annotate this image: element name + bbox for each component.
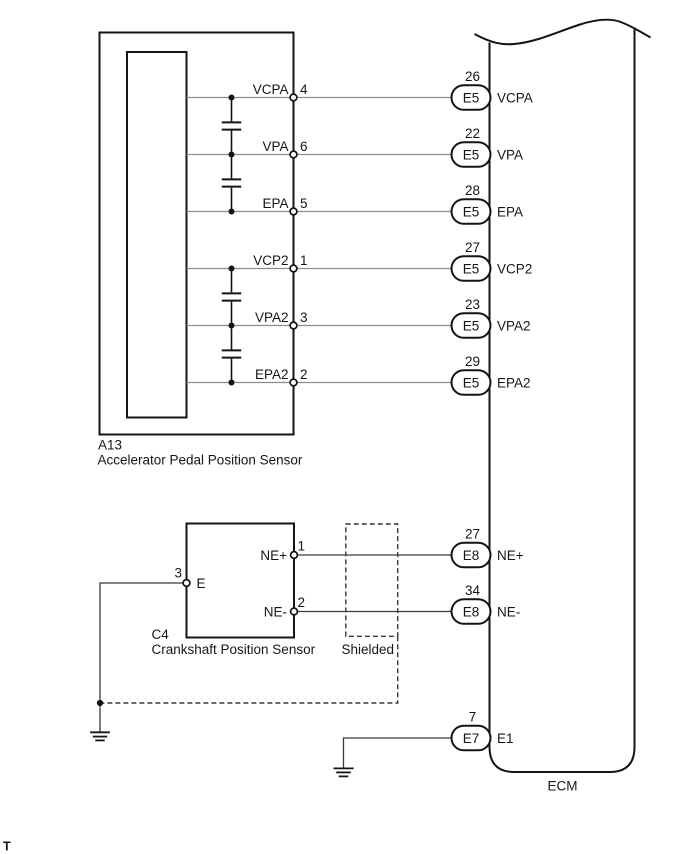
svg-text:VPA2: VPA2 <box>497 318 531 333</box>
capacitor C-c top plate <box>222 292 242 294</box>
svg-text:EPA: EPA <box>497 204 523 219</box>
svg-text:T: T <box>3 840 11 854</box>
svg-text:3: 3 <box>174 566 182 581</box>
capacitor C-a vertical link bottom <box>231 131 233 155</box>
svg-text:VCPA: VCPA <box>497 90 533 105</box>
capacitor C-d bottom plate <box>222 357 242 359</box>
svg-text:Shielded: Shielded <box>342 642 395 657</box>
capacitor C-b top plate <box>222 178 242 180</box>
svg-text:E5: E5 <box>463 147 480 162</box>
junction dot on VCPA wire <box>229 95 235 101</box>
svg-text:E8: E8 <box>463 604 480 619</box>
svg-text:E1: E1 <box>497 731 514 746</box>
svg-text:VPA: VPA <box>262 139 288 154</box>
pin terminal 3 (E) on C4 <box>183 580 190 587</box>
svg-text:7: 7 <box>469 710 477 725</box>
wire E ground run from C4 pin 3 <box>100 583 187 732</box>
capacitor C-d vertical link bottom <box>231 359 233 383</box>
svg-text:EPA: EPA <box>262 196 288 211</box>
svg-text:E5: E5 <box>463 261 480 276</box>
svg-text:27: 27 <box>465 527 480 542</box>
junction dot shield drain to E ground <box>97 700 103 706</box>
junction dot on VCP2 wire <box>229 266 235 272</box>
svg-text:1: 1 <box>300 253 308 268</box>
capacitor C-c bottom plate <box>222 300 242 302</box>
wire VPA from sensor to ECM <box>187 154 453 156</box>
capacitor C-b vertical link bottom <box>231 188 233 212</box>
wire EPA from sensor to ECM <box>187 211 453 213</box>
wire EPA2 from sensor to ECM <box>187 382 453 384</box>
junction dot on VPA wire <box>229 152 235 158</box>
svg-text:VCP2: VCP2 <box>253 253 288 268</box>
svg-text:C4: C4 <box>152 627 170 642</box>
ECM terminal E7-7 (E1) oval <box>452 726 491 751</box>
shield drain wire (dashed) to ground junction <box>100 636 398 703</box>
svg-text:NE+: NE+ <box>497 548 524 563</box>
svg-text:29: 29 <box>465 354 480 369</box>
capacitor C-a top plate <box>222 121 242 123</box>
svg-text:23: 23 <box>465 297 480 312</box>
ECM terminal E5-22 (VPA) oval <box>452 142 491 167</box>
svg-text:VCP2: VCP2 <box>497 261 532 276</box>
pin terminal 2 (EPA2) on A13 <box>290 379 297 386</box>
sensor element bar inside A13 <box>127 52 187 418</box>
ground (ECM E1 ground) <box>334 768 354 776</box>
capacitor C-b bottom plate <box>222 186 242 188</box>
pin terminal 6 (VPA) on A13 <box>290 151 297 158</box>
pin terminal 3 (VPA2) on A13 <box>290 322 297 329</box>
shield box (dashed) around NE wires <box>346 524 398 636</box>
svg-text:34: 34 <box>465 583 481 598</box>
ground (sensor shield/E ground) <box>90 732 110 740</box>
svg-text:1: 1 <box>298 539 306 554</box>
pin terminal 1 (VCP2) on A13 <box>290 265 297 272</box>
wire VCPA from sensor to ECM <box>187 97 453 99</box>
svg-text:28: 28 <box>465 183 480 198</box>
wire NE+ from C4 to ECM <box>294 554 452 556</box>
pin terminal 4 (VCPA) on A13 <box>290 94 297 101</box>
svg-text:22: 22 <box>465 126 480 141</box>
capacitor C-a vertical link top <box>231 98 233 122</box>
ECM terminal E5-29 (EPA2) oval <box>452 370 491 395</box>
svg-text:NE-: NE- <box>497 604 520 619</box>
pin terminal 5 (EPA) on A13 <box>290 208 297 215</box>
capacitor C-d vertical link top <box>231 326 233 350</box>
junction dot on EPA wire <box>229 209 235 215</box>
svg-text:26: 26 <box>465 69 480 84</box>
ECM terminal E5-28 (EPA) oval <box>452 199 491 224</box>
svg-text:VPA: VPA <box>497 147 523 162</box>
svg-text:5: 5 <box>300 196 308 211</box>
svg-text:4: 4 <box>300 82 308 97</box>
svg-text:NE-: NE- <box>264 604 287 619</box>
capacitor C-d top plate <box>222 349 242 351</box>
ECM terminal E5-27 (VCP2) oval <box>452 256 491 281</box>
capacitor C-b vertical link top <box>231 155 233 179</box>
wire VPA2 from sensor to ECM <box>187 325 453 327</box>
svg-text:E: E <box>197 576 206 591</box>
svg-text:E7: E7 <box>463 731 480 746</box>
svg-text:VCPA: VCPA <box>253 82 289 97</box>
wire VCP2 from sensor to ECM <box>187 268 453 270</box>
ECM terminal E8-34 (NE-) oval <box>452 599 491 624</box>
svg-text:EPA2: EPA2 <box>497 375 531 390</box>
svg-text:2: 2 <box>298 595 306 610</box>
pin terminal 2 (NE-) on C4 <box>291 608 298 615</box>
junction dot on EPA2 wire <box>229 380 235 386</box>
pin terminal 1 (NE+) on C4 <box>291 552 298 559</box>
svg-text:E5: E5 <box>463 90 480 105</box>
capacitor C-c vertical link top <box>231 269 233 293</box>
svg-text:NE+: NE+ <box>260 548 287 563</box>
capacitor C-c vertical link bottom <box>231 302 233 326</box>
svg-text:VPA2: VPA2 <box>255 310 289 325</box>
svg-text:2: 2 <box>300 367 308 382</box>
svg-text:E5: E5 <box>463 318 480 333</box>
capacitor C-a bottom plate <box>222 129 242 131</box>
svg-text:Accelerator Pedal Position Sen: Accelerator Pedal Position Sensor <box>98 453 303 468</box>
svg-text:E5: E5 <box>463 204 480 219</box>
svg-text:3: 3 <box>300 310 308 325</box>
svg-text:E8: E8 <box>463 548 480 563</box>
connector C4 (Crankshaft Position Sensor) box <box>187 524 295 638</box>
svg-text:A13: A13 <box>98 438 122 453</box>
svg-text:27: 27 <box>465 240 480 255</box>
connector A13 (Accelerator Pedal Position Sensor) box <box>100 33 294 435</box>
ECM body outline (wavy top, sides, rounded bottom) <box>475 20 651 45</box>
wire NE- from C4 to ECM <box>294 611 452 613</box>
svg-text:E5: E5 <box>463 375 480 390</box>
ECM terminal E5-26 (VCPA) oval <box>452 85 491 110</box>
svg-text:ECM: ECM <box>548 779 578 794</box>
svg-text:6: 6 <box>300 139 308 154</box>
svg-text:EPA2: EPA2 <box>255 367 289 382</box>
ECM terminal E5-23 (VPA2) oval <box>452 313 491 338</box>
junction dot on VPA2 wire <box>229 323 235 329</box>
svg-text:Crankshaft Position Sensor: Crankshaft Position Sensor <box>152 642 316 657</box>
wire E1 ground from ECM E7 terminal <box>344 738 453 768</box>
ECM terminal E8-27 (NE+) oval <box>452 543 491 568</box>
